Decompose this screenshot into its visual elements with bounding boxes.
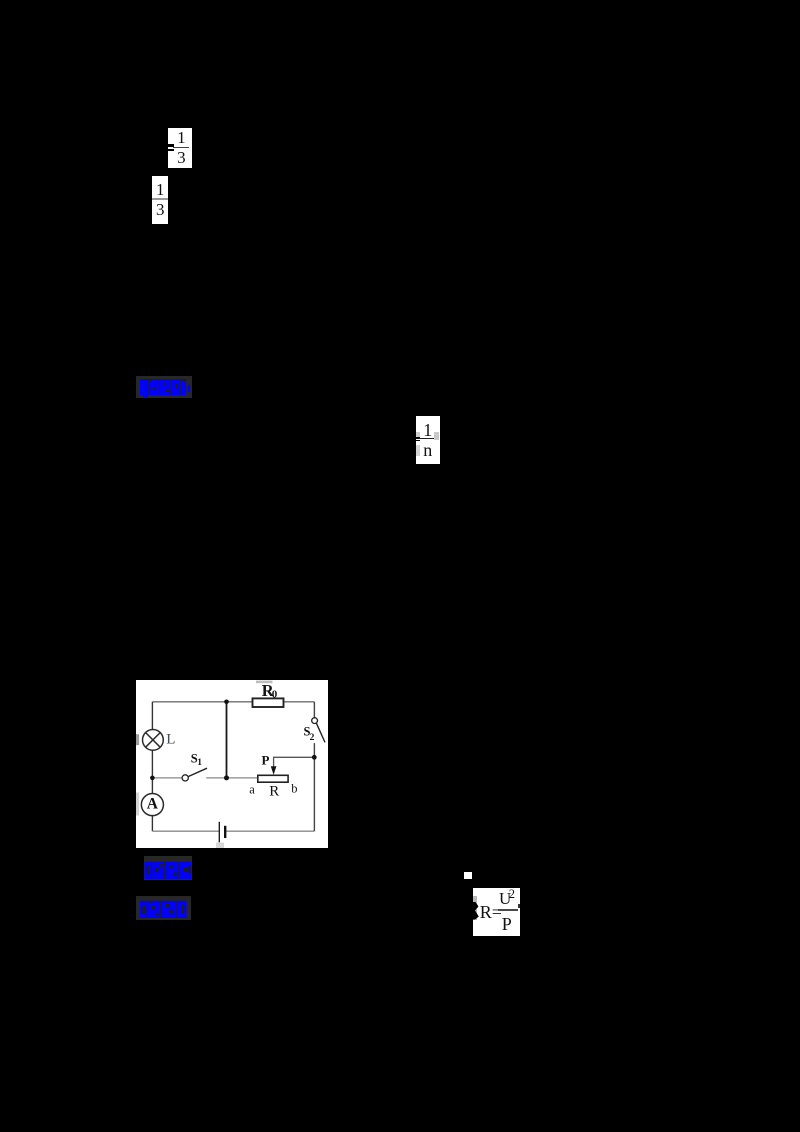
svg-text:2: 2: [309, 733, 314, 743]
svg-text:L: L: [166, 731, 175, 747]
blue heading B: [144, 856, 192, 880]
rheostat R (slide resistor): [258, 775, 288, 782]
svg-text:P: P: [261, 752, 269, 767]
small white square bullet: [464, 872, 472, 879]
arrow of slider P: [271, 766, 277, 775]
junction node right: [312, 754, 317, 759]
junction node left (lamp/ammeter/S1): [150, 775, 155, 780]
wire: top horizontal: [152, 700, 314, 702]
switch S1 blade: [188, 768, 207, 776]
formula image: 1/3: [152, 176, 168, 224]
wire: bottom horizontal: [152, 830, 219, 832]
lamp L: [142, 729, 163, 750]
svg-text:A: A: [147, 795, 159, 812]
blue heading C: [136, 896, 192, 920]
battery cell: short thick plate: [224, 825, 226, 837]
wire: slider feed: [273, 757, 314, 767]
wire: left vertical (lamp branch): [151, 701, 153, 729]
ammeter A: [141, 793, 163, 815]
switch S2 blade: [316, 723, 325, 742]
formula image: = 1/3: [168, 128, 192, 168]
switch S2 contact circle: [312, 717, 318, 723]
junction node mid (top of R column): [224, 699, 229, 704]
svg-text:b: b: [291, 781, 297, 795]
switch S1 contact circle: [182, 774, 188, 780]
clipped glyph at left edge: [471, 902, 479, 920]
svg-text:a: a: [249, 782, 255, 796]
svg-text:R: R: [269, 783, 279, 799]
circuit diagram image: [136, 680, 328, 848]
formula image: R = U^2 / P: [473, 888, 520, 936]
wire: mid horizontal (S1 row): [152, 776, 182, 778]
blue heading A: [136, 376, 192, 398]
svg-text:0: 0: [272, 688, 278, 700]
wire: middle vertical: [225, 701, 227, 777]
resistor R0: [252, 698, 283, 707]
svg-text:1: 1: [197, 758, 202, 768]
wire: right vertical: [313, 701, 315, 717]
formula image: = 1/n: [416, 416, 440, 465]
battery cell: long plate: [218, 821, 220, 841]
junction node mid (S1 row): [224, 775, 229, 780]
